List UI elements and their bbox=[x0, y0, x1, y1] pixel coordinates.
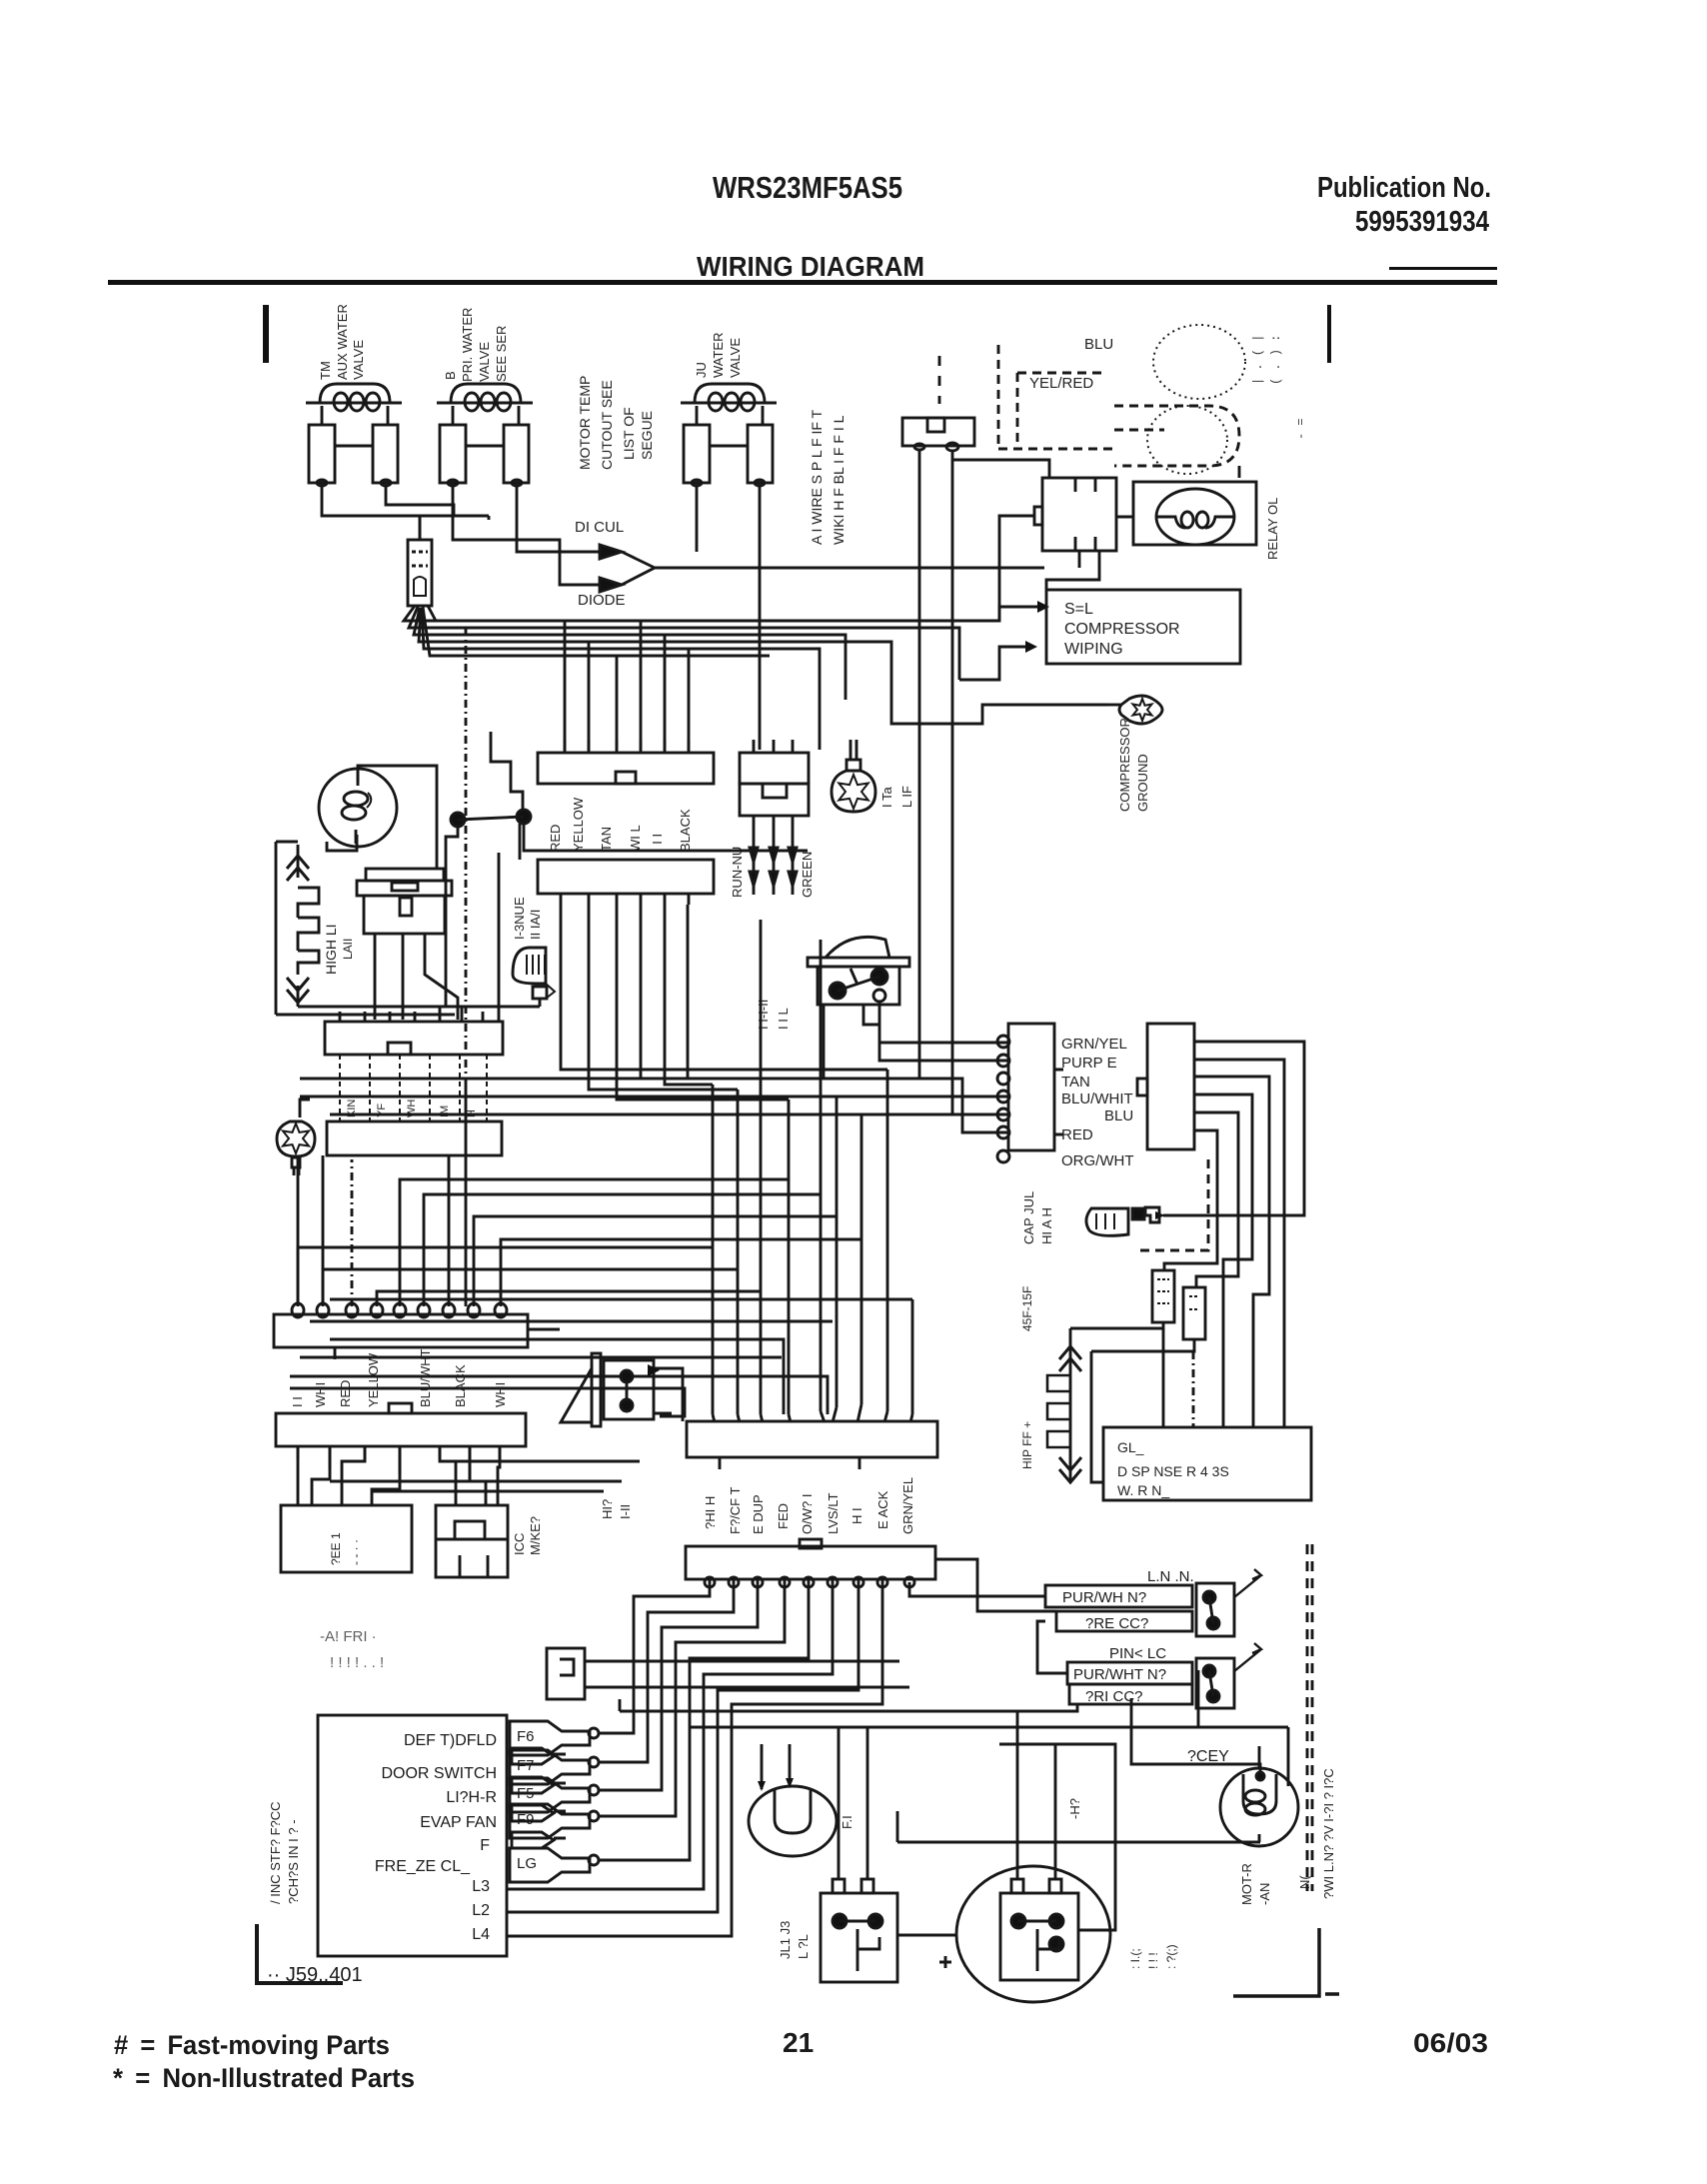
limit switch S1 box bbox=[902, 356, 974, 1114]
fuse F1 bbox=[408, 516, 432, 606]
compressor label bbox=[1128, 1944, 1178, 1969]
bottom bus wires bbox=[276, 1007, 540, 1015]
spade terminal LG bbox=[510, 1848, 599, 1882]
compressor ground label bbox=[1117, 718, 1150, 812]
condenser sketch circle bbox=[1147, 325, 1245, 474]
svg-text:! ! !: ! ! ! bbox=[1146, 1952, 1160, 1969]
HEADER bbox=[108, 170, 1497, 285]
svg-text:?EE 1: ?EE 1 bbox=[329, 1532, 343, 1565]
svg-text:LIST OF: LIST OF bbox=[621, 407, 637, 460]
micro switch SW2 bbox=[1067, 1643, 1261, 1708]
wire valve V1 to fuse bbox=[322, 486, 489, 540]
svg-text:RELAY OL: RELAY OL bbox=[1265, 498, 1280, 560]
fan bottom wire bbox=[897, 1811, 1260, 1842]
page edge mark left bbox=[263, 305, 269, 363]
connector CN2 bbox=[1137, 1024, 1201, 1149]
svg-text:I I-I-II: I I-I-II bbox=[756, 1000, 771, 1030]
svg-text:BLU/WHT: BLU/WHT bbox=[418, 1348, 433, 1407]
svg-text:* = Non-Illustrated Parts: * = Non-Illustrated Parts bbox=[113, 2063, 415, 2093]
J1 wire color labels bbox=[548, 797, 693, 852]
ground screw G2 bbox=[832, 740, 875, 812]
svg-text:L2: L2 bbox=[472, 1902, 490, 1919]
spade stub c bbox=[512, 1805, 566, 1821]
svg-text:D SP NSE R 4 3S: D SP NSE R 4 3S bbox=[1117, 1463, 1229, 1479]
arrows into compressor wiring box bbox=[1025, 601, 1049, 653]
svg-text:S=L: S=L bbox=[1064, 601, 1093, 618]
ice maker bbox=[436, 1505, 508, 1577]
svg-text:EVAP FAN: EVAP FAN bbox=[420, 1814, 497, 1831]
see dispenser wiring box bbox=[1103, 1427, 1311, 1500]
svg-text:06/03: 06/03 bbox=[1413, 2028, 1488, 2058]
svg-text:BLU: BLU bbox=[1084, 336, 1113, 353]
diode D1 bbox=[600, 545, 1044, 592]
heater 2 labels bbox=[1020, 1286, 1034, 1469]
svg-text:: I.(;: : I.(; bbox=[1128, 1948, 1142, 1969]
svg-text:LI?H-R: LI?H-R bbox=[446, 1789, 497, 1806]
svg-text:RED: RED bbox=[1061, 1126, 1093, 1143]
G2 labels bbox=[879, 786, 914, 808]
C1 labels bbox=[730, 847, 815, 898]
heater label bbox=[323, 924, 355, 975]
spade terminal F9 bbox=[510, 1804, 599, 1838]
svg-text:Publication No.: Publication No. bbox=[1317, 172, 1491, 204]
spade chains to connector G bbox=[507, 1579, 882, 1936]
connector J1 bbox=[538, 740, 714, 784]
svg-text:/ INC STF? F?CC: / INC STF? F?CC bbox=[268, 1801, 283, 1904]
svg-text:SEE SER: SEE SER bbox=[494, 326, 509, 382]
dotted text marks bbox=[1251, 335, 1308, 440]
lamp loop wiring bbox=[327, 766, 437, 869]
connector C1 3-way bbox=[740, 740, 809, 816]
svg-text:GRN/YEL: GRN/YEL bbox=[900, 1477, 915, 1534]
svg-text:WI L: WI L bbox=[628, 825, 643, 852]
svg-text:N(: N( bbox=[1297, 1875, 1312, 1889]
valve V2 solenoid bodies bbox=[440, 425, 529, 486]
svg-text:JU: JU bbox=[694, 362, 709, 378]
svg-text:WATER: WATER bbox=[711, 333, 726, 379]
water valve V3 coil bbox=[681, 384, 777, 425]
svg-text:?CH?S IN I ? -: ?CH?S IN I ? - bbox=[286, 1819, 301, 1904]
compressor start device bbox=[1116, 482, 1256, 545]
svg-text:HI?: HI? bbox=[600, 1499, 615, 1519]
svg-text:HIGH LI: HIGH LI bbox=[323, 924, 339, 975]
water valve V2 coil bbox=[437, 384, 533, 425]
svg-text:E ACK: E ACK bbox=[875, 1490, 890, 1529]
svg-text:HI A H: HI A H bbox=[1039, 1207, 1054, 1244]
svg-text:YEL/RED: YEL/RED bbox=[1029, 375, 1093, 392]
ground screw G1 bbox=[277, 1099, 315, 1175]
svg-text:GRN/YEL: GRN/YEL bbox=[1061, 1036, 1127, 1053]
svg-text:HIP FF +: HIP FF + bbox=[1020, 1421, 1034, 1469]
motor temp note text bbox=[577, 376, 655, 470]
connector G bbox=[686, 1539, 1067, 1673]
J2 pin riser drops bbox=[561, 905, 887, 1099]
svg-text:L4: L4 bbox=[472, 1926, 490, 1943]
svg-text:I I I: I I I bbox=[650, 834, 665, 852]
resistor R2 bbox=[1091, 1287, 1205, 1427]
svg-text:ICC: ICC bbox=[512, 1533, 527, 1555]
svg-text:F?/CF T: F?/CF T bbox=[728, 1487, 743, 1534]
svg-text:WIRING DIAGRAM: WIRING DIAGRAM bbox=[697, 251, 924, 282]
spade stub a bbox=[512, 1748, 566, 1764]
svg-text:E DUP: E DUP bbox=[751, 1494, 766, 1534]
svg-text:5995391934: 5995391934 bbox=[1355, 206, 1489, 238]
svg-text:DIODE: DIODE bbox=[578, 592, 626, 609]
svg-text:PUR/WHT N?: PUR/WHT N? bbox=[1073, 1666, 1166, 1683]
grey wire run bbox=[620, 1670, 1288, 1786]
compressor relay box bbox=[1034, 478, 1116, 551]
relay feed wires bbox=[839, 1711, 1055, 1879]
wires top right to compressor block bbox=[952, 460, 1239, 621]
svg-text:B: B bbox=[443, 371, 458, 380]
evap fan motor bbox=[749, 1744, 837, 1856]
svg-text:I-3NUE: I-3NUE bbox=[512, 897, 527, 940]
svg-text:RUN-NU: RUN-NU bbox=[730, 847, 745, 898]
svg-text:?CEY: ?CEY bbox=[1187, 1748, 1229, 1765]
svg-text:COMPRESSOR: COMPRESSOR bbox=[1064, 621, 1180, 638]
svg-text:?WI L.N? ?V I-?I ? I?C: ?WI L.N? ?V I-?I ? I?C bbox=[1321, 1768, 1336, 1899]
junction node bbox=[519, 824, 522, 860]
svg-text:I Ta: I Ta bbox=[879, 787, 894, 808]
door switch contacts bbox=[446, 732, 808, 1008]
svg-text:LVS/LT: LVS/LT bbox=[826, 1493, 841, 1534]
svg-text:PUR/WH N?: PUR/WH N? bbox=[1062, 1589, 1146, 1606]
svg-text:TAN: TAN bbox=[1061, 1074, 1090, 1091]
connector D bbox=[274, 1303, 560, 1359]
svg-text:·· J59..401: ·· J59..401 bbox=[267, 1964, 363, 1986]
svg-text:F6: F6 bbox=[517, 1728, 535, 1745]
svg-text:CUTOUT SEE: CUTOUT SEE bbox=[599, 380, 615, 470]
svg-text:TAN: TAN bbox=[599, 827, 614, 852]
svg-text:H I: H I bbox=[850, 1507, 864, 1524]
connector J4 bbox=[298, 1121, 502, 1306]
svg-text:YELLOW: YELLOW bbox=[571, 797, 586, 852]
thermostat label bbox=[1021, 1191, 1054, 1244]
water valve V1 coil bbox=[306, 384, 402, 425]
spade terminal F7 bbox=[510, 1750, 599, 1784]
relay label bbox=[778, 1921, 811, 1959]
svg-text:I I: I I bbox=[290, 1396, 305, 1407]
harness note text bbox=[809, 409, 847, 545]
defrost control bbox=[357, 869, 458, 1020]
svg-text:WIPING: WIPING bbox=[1064, 641, 1123, 658]
svg-text:VALVE: VALVE bbox=[351, 340, 366, 380]
mesh horizontals into CN box bbox=[300, 1096, 1008, 1114]
compressor bbox=[897, 1744, 1115, 2002]
svg-text:L3: L3 bbox=[472, 1878, 490, 1895]
svg-text:L.N .N.: L.N .N. bbox=[1147, 1568, 1194, 1585]
svg-text:DOOR SWITCH: DOOR SWITCH bbox=[381, 1765, 497, 1782]
svg-text:-A! FRI ·: -A! FRI · bbox=[320, 1628, 377, 1645]
dashed harness outline bbox=[998, 345, 1239, 466]
defrost heater element bbox=[276, 842, 319, 1015]
defrost heater 2 bbox=[1047, 1328, 1103, 1482]
svg-text:RED: RED bbox=[548, 825, 563, 852]
svg-text:-AN: -AN bbox=[1257, 1883, 1272, 1905]
CN1 wire labels bbox=[1061, 1036, 1134, 1169]
svg-text:PIN< LC: PIN< LC bbox=[1109, 1645, 1166, 1662]
svg-text:I I L: I I L bbox=[776, 1008, 791, 1030]
svg-text:VALVE: VALVE bbox=[477, 342, 492, 382]
svg-text:M/KE?: M/KE? bbox=[528, 1516, 543, 1555]
spade terminal F5 bbox=[510, 1778, 599, 1812]
svg-text:! ! ! ! . . !: ! ! ! ! . . ! bbox=[330, 1654, 384, 1671]
condenser fan motor bbox=[1220, 1746, 1298, 1846]
E lead crisscross bbox=[298, 1446, 640, 1505]
svg-text:COMPRESSOR: COMPRESSOR bbox=[1117, 718, 1132, 812]
board side label bbox=[268, 1801, 301, 1904]
F wire labels bbox=[703, 1477, 915, 1534]
svg-text:PRI. WATER: PRI. WATER bbox=[460, 308, 475, 382]
ice maker label bbox=[512, 1516, 543, 1555]
spade stub d bbox=[512, 1832, 566, 1848]
svg-text:TM: TM bbox=[318, 361, 333, 380]
connector F bbox=[687, 1421, 937, 1469]
svg-text:F9: F9 bbox=[517, 1811, 535, 1828]
see note box bbox=[281, 1505, 412, 1572]
defrost thermostat dome bbox=[1086, 1207, 1159, 1235]
svg-text:-H?: -H? bbox=[1067, 1798, 1082, 1819]
svg-text:PURP E: PURP E bbox=[1061, 1055, 1117, 1072]
svg-text:LAII: LAII bbox=[341, 939, 355, 960]
J3 lead labels bbox=[340, 1055, 487, 1121]
svg-text:LG: LG bbox=[517, 1855, 537, 1872]
svg-text:BLU: BLU bbox=[1104, 1107, 1133, 1124]
valve V1 solenoid bodies bbox=[309, 425, 398, 486]
connector J3 bbox=[325, 853, 503, 1055]
svg-text:GL_: GL_ bbox=[1117, 1439, 1144, 1455]
svg-text:F.I: F.I bbox=[840, 1815, 854, 1829]
svg-text:F: F bbox=[480, 1837, 490, 1854]
svg-text:BLACK: BLACK bbox=[678, 809, 693, 852]
tail duct label bbox=[512, 897, 543, 940]
svg-text:( . ) :: ( . ) : bbox=[1269, 335, 1283, 385]
svg-text:?RI CC?: ?RI CC? bbox=[1085, 1688, 1143, 1705]
control board bbox=[318, 1715, 507, 1956]
svg-text:MOT-R: MOT-R bbox=[1239, 1863, 1254, 1905]
svg-text:MOTOR TEMP: MOTOR TEMP bbox=[577, 376, 593, 470]
svg-text:RED: RED bbox=[338, 1380, 353, 1407]
connector E bbox=[276, 1403, 526, 1479]
svg-text:| . ( |: | . ( | bbox=[1251, 335, 1265, 385]
svg-text:BLACK: BLACK bbox=[453, 1364, 468, 1407]
svg-text:JL1 J3: JL1 J3 bbox=[778, 1921, 793, 1959]
svg-text:- =: - = bbox=[1294, 418, 1308, 440]
wire valve V1 right bbox=[386, 486, 454, 516]
svg-text:GREEN: GREEN bbox=[800, 852, 815, 898]
svg-text:FRE_ZE CL_: FRE_ZE CL_ bbox=[375, 1858, 471, 1875]
svg-text:GROUND: GROUND bbox=[1135, 754, 1150, 812]
svg-text:?RE CC?: ?RE CC? bbox=[1085, 1615, 1148, 1632]
bottom left corner mark bbox=[257, 1924, 343, 1983]
svg-text:AUX WATER: AUX WATER bbox=[335, 304, 350, 380]
bottom right corner mark bbox=[1233, 1928, 1339, 1996]
valve label bbox=[600, 1499, 633, 1519]
wire valve V2 right to diode bbox=[517, 486, 600, 552]
svg-text:O/W? I: O/W? I bbox=[800, 1494, 815, 1534]
main bus y1079 bbox=[300, 1079, 1008, 1132]
svg-text:I-II: I-II bbox=[618, 1504, 633, 1519]
mesh verticals to connector F bbox=[688, 905, 912, 1422]
svg-text:DI CUL: DI CUL bbox=[575, 519, 624, 536]
diode labels bbox=[575, 519, 626, 609]
svg-text:YELLOW: YELLOW bbox=[366, 1352, 381, 1407]
faint harness note bbox=[320, 1628, 384, 1671]
overload relay bbox=[821, 1879, 897, 1982]
long dashed vertical riser bbox=[465, 628, 468, 1082]
valve V3 solenoid bodies bbox=[684, 425, 773, 486]
see compressor wiring box bbox=[1046, 590, 1240, 664]
svg-text:CAP JUL: CAP JUL bbox=[1021, 1191, 1036, 1244]
condenser fan label bbox=[1239, 1863, 1312, 1905]
start device label bbox=[1265, 498, 1280, 560]
svg-text:ORG/WHT: ORG/WHT bbox=[1061, 1152, 1134, 1169]
svg-text:?HI H: ?HI H bbox=[703, 1496, 718, 1529]
svg-text:: ?(;): : ?(;) bbox=[1164, 1944, 1178, 1969]
svg-text:W. R N_: W. R N_ bbox=[1117, 1482, 1169, 1498]
connector CN1 bbox=[997, 1024, 1063, 1162]
svg-text:21: 21 bbox=[783, 2027, 814, 2058]
rocker switch label bbox=[756, 1000, 791, 1030]
small connector CN3 bbox=[547, 1648, 909, 1699]
wire valve V2 left to diode bbox=[453, 486, 600, 585]
wire valve V3 right down to connector bbox=[759, 486, 762, 750]
svg-text:BLU/WHIT: BLU/WHIT bbox=[1061, 1091, 1133, 1107]
micro switch SW1 bbox=[1045, 1568, 1261, 1636]
svg-text:L ?L: L ?L bbox=[796, 1934, 811, 1959]
mold thermostat bbox=[513, 948, 555, 1007]
freezer lamp bbox=[319, 769, 397, 847]
spade stub b bbox=[512, 1777, 566, 1793]
fuse fanout bundle bbox=[404, 606, 1107, 750]
CN2 nested leads bbox=[1137, 1042, 1304, 1427]
valve V3 label bbox=[694, 333, 743, 379]
svg-text:WRS23MF5AS5: WRS23MF5AS5 bbox=[713, 170, 902, 205]
120V dashed supply line bbox=[1307, 1544, 1312, 1891]
svg-text:WHI: WHI bbox=[313, 1382, 328, 1407]
spade terminal F6 bbox=[510, 1721, 599, 1755]
svg-text:WHI: WHI bbox=[493, 1382, 508, 1407]
svg-text:F7: F7 bbox=[517, 1757, 535, 1774]
C1 lead wires with terminals bbox=[750, 816, 797, 895]
svg-text:A I WIRE S P L F IF T: A I WIRE S P L F IF T bbox=[809, 409, 825, 545]
resistor R1 bbox=[1070, 1270, 1174, 1427]
svg-text:L IF: L IF bbox=[899, 786, 914, 808]
D wire labels bbox=[290, 1348, 508, 1407]
svg-text:II IA/I: II IA/I bbox=[528, 910, 543, 940]
compressor + mark bbox=[939, 1956, 951, 1968]
mesh left L-runs to connector D bbox=[298, 1159, 861, 1306]
svg-text:WIKI H F BL I F F I L: WIKI H F BL I F F I L bbox=[831, 415, 847, 545]
svg-text:SEGUE: SEGUE bbox=[639, 411, 655, 460]
svg-text:DEF T)DFLD: DEF T)DFLD bbox=[404, 1732, 497, 1749]
compressor ground ring terminal bbox=[1107, 696, 1162, 724]
rocker switch S2 bbox=[808, 937, 1008, 1079]
riser wires bundle to connector C1 bbox=[565, 621, 689, 750]
lower mesh horizontals bbox=[290, 1082, 912, 1421]
svg-text:- - · ·: - - · · bbox=[349, 1539, 363, 1565]
svg-text:VALVE: VALVE bbox=[728, 338, 743, 378]
wire valve V3 left down bbox=[696, 486, 699, 552]
FOOTER bbox=[113, 2027, 1488, 2093]
dispenser water valve bbox=[561, 1353, 680, 1426]
svg-text:45F-15F: 45F-15F bbox=[1020, 1286, 1034, 1331]
page edge mark right bbox=[1327, 305, 1331, 363]
connector J2 bbox=[538, 860, 714, 905]
valve V1 label bbox=[318, 304, 366, 380]
svg-text:# = Fast-moving Parts: # = Fast-moving Parts bbox=[114, 2030, 390, 2060]
valve V2 label bbox=[443, 308, 509, 382]
svg-text:FED: FED bbox=[776, 1503, 791, 1529]
